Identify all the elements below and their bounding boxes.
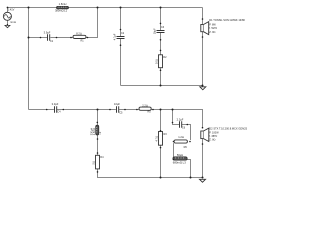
svg-text:R1: R1 <box>81 40 85 43</box>
speaker D1 <box>201 22 209 35</box>
inductor L1 <box>55 2 69 13</box>
capacitor C2 <box>113 32 125 40</box>
svg-text:D2 STX T.10.200.8.MCX GDN25: D2 STX T.10.200.8.MCX GDN25 <box>209 126 247 130</box>
resistor R5 <box>139 104 151 114</box>
svg-text:680mΩ L3: 680mΩ L3 <box>173 161 186 165</box>
voltage source V1 <box>3 12 11 20</box>
wire R3 branch <box>160 110 162 178</box>
svg-text:R3: R3 <box>164 133 168 136</box>
svg-text:10µF: 10µF <box>114 102 120 106</box>
svg-text:3.9µF: 3.9µF <box>44 31 51 35</box>
resistor R4 <box>91 155 104 169</box>
svg-text:1.2Ω: 1.2Ω <box>178 135 184 139</box>
capacitor C5 <box>114 102 123 114</box>
wire D1 column <box>202 8 204 86</box>
wire bypass branch y=37 <box>29 8 98 38</box>
svg-text:4.7Ω: 4.7Ω <box>154 136 158 142</box>
svg-text:1.41V: 1.41V <box>8 8 15 12</box>
wire top rail <box>8 7 203 9</box>
wire C2 column <box>120 8 122 86</box>
wire left vertical bus <box>28 8 30 110</box>
wire D2 column <box>202 139 204 178</box>
capacitor C3 <box>153 26 165 34</box>
wire C3/R2 column <box>160 8 162 86</box>
svg-text:2.2µF: 2.2µF <box>177 117 184 121</box>
resistor R6 <box>174 135 187 149</box>
svg-text:Z. 8Ω: Z. 8Ω <box>209 31 215 34</box>
svg-text:C2: C2 <box>121 32 125 35</box>
resistor R3 <box>154 132 167 146</box>
source labels <box>8 8 16 24</box>
svg-text:C3: C3 <box>161 26 165 29</box>
resistor R2 <box>154 55 167 68</box>
resistor R1 <box>73 32 86 43</box>
svg-text:P. 8W: P. 8W <box>209 23 216 26</box>
wire L2/R4 chain <box>98 110 203 178</box>
wire lower rail y=109 <box>29 110 203 128</box>
svg-text:10Ω: 10Ω <box>154 59 158 64</box>
svg-text:R2: R2 <box>163 56 167 59</box>
svg-text:1mΩ: 1mΩ <box>10 20 16 24</box>
svg-text:Z. 8Ω: Z. 8Ω <box>209 138 215 141</box>
wire C6/R6/L3 branch <box>173 110 191 178</box>
svg-text:1.5mΩ: 1.5mΩ <box>93 128 96 136</box>
svg-text:R4: R4 <box>100 156 104 159</box>
svg-text:3.3µF: 3.3µF <box>52 102 59 106</box>
inductor L2 <box>91 125 102 135</box>
svg-text:380mΩ L1: 380mΩ L1 <box>55 9 68 13</box>
svg-text:C1: C1 <box>50 40 54 43</box>
wire source column <box>7 8 9 26</box>
capacitor C6 <box>177 117 186 129</box>
svg-text:R6: R6 <box>184 146 188 149</box>
speaker D2 <box>201 128 209 141</box>
svg-text:1.8mH: 1.8mH <box>59 2 67 6</box>
ground (mid rail) <box>200 87 206 90</box>
svg-text:f. 5kHz: f. 5kHz <box>209 27 218 30</box>
svg-text:8.2Ω: 8.2Ω <box>76 32 82 36</box>
svg-text:10µF: 10µF <box>153 28 157 34</box>
ground (bottom rail) <box>200 179 206 182</box>
capacitor C1 <box>44 31 54 43</box>
inductor L3 <box>173 153 187 165</box>
wire mid rail y=85 <box>121 85 203 87</box>
svg-text:D1 TONSIL SON GDWK 13/80: D1 TONSIL SON GDWK 13/80 <box>209 18 245 22</box>
svg-text:C4: C4 <box>57 111 61 114</box>
ground (source) <box>5 25 10 27</box>
svg-text:2.2Ω: 2.2Ω <box>142 104 148 108</box>
svg-text:L2: L2 <box>99 131 102 134</box>
svg-text:4.7µF: 4.7µF <box>113 33 117 40</box>
svg-text:5Ω: 5Ω <box>91 161 95 164</box>
junction and pin dots <box>7 7 204 179</box>
capacitor C4 <box>52 102 61 114</box>
svg-text:R5: R5 <box>148 111 152 114</box>
svg-text:50µH: 50µH <box>177 153 183 157</box>
svg-text:C5: C5 <box>119 112 123 115</box>
svg-text:C6: C6 <box>182 127 186 130</box>
